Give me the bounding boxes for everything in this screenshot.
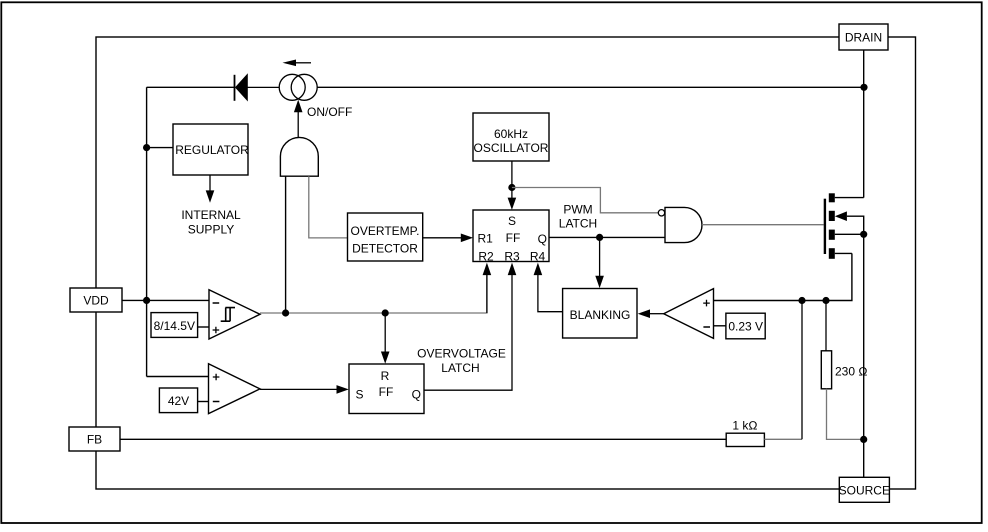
wire: 42V box to comparator minus input [198, 401, 209, 403]
svg-text:1 kΩ: 1 kΩ [732, 418, 757, 432]
node: dot sense rail right [822, 297, 829, 304]
wire: MOSFET top pad to drain rail [835, 197, 864, 199]
node: dot overvoltage-latch branch [382, 309, 389, 316]
label ON/OFF [307, 105, 352, 119]
wire+arrow: overtemp detector to R1 [423, 234, 473, 243]
svg-text:PWM: PWM [563, 202, 592, 216]
wire: DRAIN down to MOSFET drain [863, 50, 865, 198]
svg-text:FB: FB [87, 433, 102, 447]
8/14.5V reference box [151, 313, 198, 338]
node: dot on Q output [596, 234, 603, 241]
svg-text:OVERVOLTAGE: OVERVOLTAGE [417, 347, 506, 361]
wire: R4 from BLANKING left edge [534, 263, 563, 312]
svg-text:INTERNAL: INTERNAL [181, 208, 241, 222]
label PWM LATCH [559, 202, 597, 230]
transistor Q1 power MOSFET [825, 193, 847, 258]
OVERTEMP. DETECTOR block [348, 213, 423, 261]
svg-text:SUPPLY: SUPPLY [188, 223, 234, 237]
label OVERVOLTAGE LATCH [417, 347, 506, 375]
svg-text:DETECTOR: DETECTOR [352, 241, 418, 255]
svg-text:BLANKING: BLANKING [570, 308, 631, 322]
arrow: regulator to internal supply [206, 176, 215, 203]
wire: 0.23V box to comparator minus input [714, 325, 726, 327]
svg-text:VDD: VDD [83, 294, 109, 308]
FB terminal box [69, 427, 120, 451]
diode D1 (cathode bar + triangle pointing left) [235, 75, 280, 101]
wire: oscillator branch to NAND top input (gray) [512, 188, 658, 213]
svg-text:FF: FF [506, 231, 521, 245]
svg-text:R1: R1 [478, 232, 494, 246]
wire: AND gate right input to overtemp detector [309, 176, 348, 238]
node: junction dot at regulator tap [143, 144, 150, 151]
PWM latch U6 (S FF R1..R4 Q) [473, 210, 549, 263]
wire: bottom pad down to sense rail [835, 252, 852, 254]
42V reference box [159, 388, 197, 413]
VDD terminal box [70, 288, 122, 312]
SOURCE terminal box [839, 477, 890, 502]
op-amp U3 undervoltage comparator with hysteresis [209, 290, 260, 339]
svg-text:Q: Q [538, 232, 547, 246]
op-amp U4 overvoltage comparator [209, 364, 261, 414]
svg-text:REGULATOR: REGULATOR [175, 143, 249, 157]
svg-text:8/14.5V: 8/14.5V [154, 319, 195, 333]
arrow: 0.23V comparator output into BLANKING right edge [638, 309, 664, 318]
wire: undervoltage comparator output rail (gray) to R2 [260, 267, 487, 313]
REGULATOR block [173, 124, 249, 175]
wire: PWM latch Q to NAND bottom input [549, 236, 665, 238]
60kHz OSCILLATOR block [473, 113, 549, 161]
svg-text:DRAIN: DRAIN [845, 30, 882, 44]
svg-text:LATCH: LATCH [559, 217, 597, 231]
IC boundary rectangle [96, 37, 916, 489]
op-amp U8 current limit comparator (points left) [664, 289, 714, 339]
svg-text:42V: 42V [168, 394, 189, 408]
svg-text:R3: R3 [504, 249, 520, 263]
svg-text:ON/OFF: ON/OFF [307, 105, 352, 119]
wire: top rail y=87 from corner x=146.5 to diode [147, 86, 234, 88]
wire: NAND output to MOSFET gate (gray) [702, 224, 824, 226]
node: dot drain rail [860, 84, 867, 91]
wire: comparator plus input rail to MOSFET source sense [714, 253, 852, 300]
wire: tap to regulator [147, 147, 173, 149]
wire: FB to 1k resistor [120, 438, 726, 440]
wire: body diode pad to right rail [847, 216, 864, 234]
wire: source node down to SOURCE terminal [863, 234, 865, 477]
wire: AND gate left input down to undervoltage comparator output rail [285, 176, 287, 313]
arrow: branch down into overvoltage latch R input [381, 313, 390, 364]
node: dot sense rail left [798, 297, 805, 304]
svg-text:60kHz: 60kHz [494, 127, 528, 141]
wire: third pad to right rail [835, 233, 864, 235]
NAND gate U7 with inverted top input [658, 207, 702, 242]
current source CS1 (two overlapping circles) [279, 74, 317, 100]
svg-text:0.23 V: 0.23 V [728, 319, 763, 333]
svg-text:230 Ω: 230 Ω [835, 364, 868, 378]
wire: from current source right side to DRAIN node [317, 86, 864, 88]
wire: oscillator down to S of PWM latch [508, 161, 517, 210]
overvoltage latch U5 (R FF Q) [349, 364, 424, 414]
svg-text:S: S [356, 388, 364, 402]
svg-text:S: S [508, 214, 516, 228]
svg-text:LATCH: LATCH [441, 361, 479, 375]
svg-text:OVERTEMP.: OVERTEMP. [351, 224, 420, 238]
arrow: current direction arrow above current source [283, 60, 312, 67]
node: dot AND-gate branch [282, 309, 289, 316]
svg-text:OSCILLATOR: OSCILLATOR [474, 141, 549, 155]
arrow into R2 of PWM latch [483, 263, 492, 313]
svg-text:Q: Q [412, 388, 421, 402]
wire: 1k resistor up to sense rail (gray then black) [764, 301, 802, 440]
svg-text:R4: R4 [530, 249, 546, 263]
svg-text:R2: R2 [478, 249, 494, 263]
wire: VDD to undervoltage comparator minus input [122, 299, 209, 301]
wire+arrow: 42V comparator output into S of overvoltage latch [260, 385, 349, 394]
BLANKING block [563, 289, 637, 339]
0.23 V reference box [726, 313, 765, 339]
svg-text:FF: FF [379, 385, 394, 399]
label INTERNAL SUPPLY [181, 208, 241, 237]
svg-text:R: R [381, 369, 390, 383]
arrow: Q dot down into BLANKING top [595, 237, 604, 288]
DRAIN terminal box [839, 24, 888, 50]
node: junction dot VDD line [143, 297, 150, 304]
resistor R-sense 230 ohm [821, 301, 867, 440]
node: dot MOSFET source node [860, 231, 867, 238]
wire: overvoltage latch Q up to R3 [424, 263, 516, 391]
AND gate U2 (on/off logic, rounded top) [280, 137, 318, 176]
wire: 8/14.5V to comparator plus input [198, 326, 209, 328]
wire: branch to 42V comparator plus input [147, 376, 209, 378]
node: dot oscillator branch [508, 184, 515, 191]
svg-text:SOURCE: SOURCE [839, 483, 890, 497]
node: dot at source/sense junction [860, 436, 867, 443]
wire: vertical x=146.5 from top rail down to 42V comparator branch [146, 87, 148, 376]
wire: ON/OFF arrow from AND gate up into current source [294, 100, 303, 138]
resistor R-fb 1 kohm [726, 418, 764, 446]
